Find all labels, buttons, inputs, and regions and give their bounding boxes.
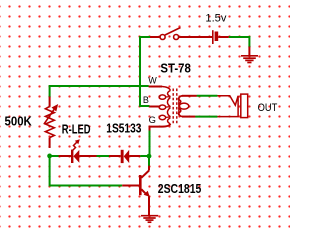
svg-text:500K: 500K bbox=[5, 113, 33, 128]
LED R-LED bbox=[59, 139, 97, 163]
wire: secondary bottom to jack sleeve bbox=[195, 116, 217, 118]
wire: battery negative to ground bbox=[229, 37, 250, 48]
wire: battery positive net from switch corner down to transformer pin B bbox=[140, 37, 151, 106]
svg-text:R-LED: R-LED bbox=[62, 122, 91, 137]
svg-text:W: W bbox=[148, 75, 157, 85]
wire: potentiometer top to transformer pin W bbox=[50, 86, 149, 98]
ground symbol (emitter) bbox=[141, 216, 158, 223]
wire: collector node down bbox=[148, 156, 150, 166]
svg-text:2SC1815: 2SC1815 bbox=[158, 181, 202, 196]
wire: secondary top to jack tip bbox=[197, 95, 218, 97]
svg-text:OUT: OUT bbox=[258, 102, 278, 114]
transformer T1 ST-78 bbox=[149, 87, 197, 132]
svg-text:B: B bbox=[143, 95, 149, 105]
svg-text:1.5v: 1.5v bbox=[205, 13, 226, 25]
potentiometer 500K bbox=[44, 97, 58, 149]
ground symbol (battery) bbox=[241, 47, 258, 63]
diode 1S5133 bbox=[109, 150, 140, 163]
jack J1 (phone plug OUT) bbox=[179, 94, 248, 118]
svg-text:G: G bbox=[149, 114, 156, 125]
switch S1 bbox=[150, 28, 212, 40]
wire: diode to collector node bbox=[140, 155, 149, 157]
wire: LED to diode bbox=[97, 155, 110, 157]
transistor Q1 2SC1815 bbox=[122, 166, 150, 216]
wire: potentiometer bottom to transistor base bbox=[50, 156, 123, 186]
junction: collector node bbox=[147, 154, 152, 159]
junction: potentiometer bottom node bbox=[47, 154, 52, 159]
svg-text:ST-78: ST-78 bbox=[160, 60, 190, 75]
battery BT1 bbox=[213, 30, 229, 44]
svg-text:1S5133: 1S5133 bbox=[106, 121, 141, 136]
wire: transformer pin G down to collector node bbox=[149, 131, 151, 157]
wire: pot junction to LED bbox=[50, 155, 59, 157]
